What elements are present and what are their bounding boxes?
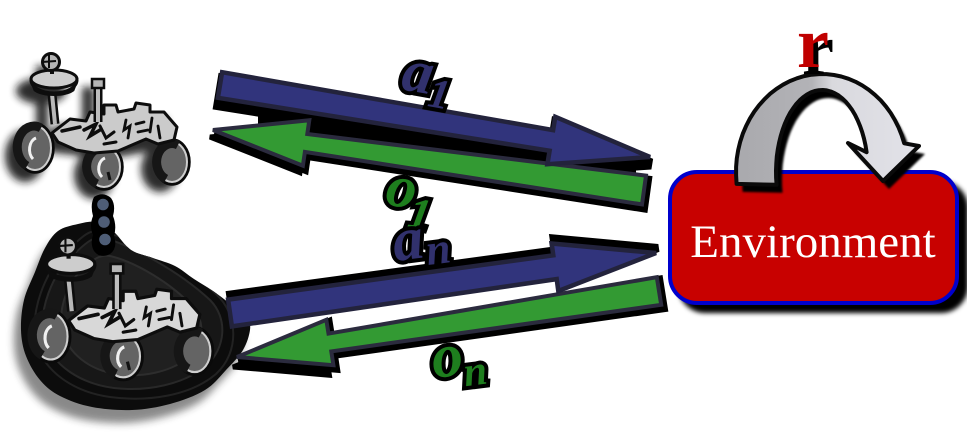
label an [389,202,454,279]
reward arch arrow [736,74,919,185]
ellipsis dot 2 [98,216,110,228]
rover 1 (top agent) [17,54,189,190]
ellipsis dot 1 [97,199,109,211]
label on [427,318,489,400]
label a1 [396,37,458,120]
arrow on shadow [239,280,663,368]
arrow a1 shadow [219,79,651,171]
agent-group blob shadow [14,235,243,424]
agent-group blob [21,222,250,411]
reward arch shadow [742,82,925,193]
arrow o1 shadow [215,124,648,208]
arrow on (green, from environment) [237,277,661,365]
ellipsis dot 3 [99,234,111,246]
arrow an shadow [230,239,658,322]
svg-text:r: r [797,3,829,83]
environment box [670,172,957,303]
svg-text:n: n [423,223,453,275]
svg-text:Environment: Environment [690,216,935,268]
environment box shadow [678,181,967,313]
arrow a1 (blue, to environment) [218,72,650,164]
label o1 [379,152,440,240]
rover 1 shadow [5,66,179,199]
arrow o1 (green, from environment) [213,120,646,204]
ellipsis dots backdrop [91,194,115,256]
arrow an (blue, to environment) [228,244,656,327]
blob ring texture [35,231,234,399]
top pair gap fill [258,104,636,174]
svg-text:n: n [461,348,490,397]
rover 2 (bottom agent) [32,237,213,379]
